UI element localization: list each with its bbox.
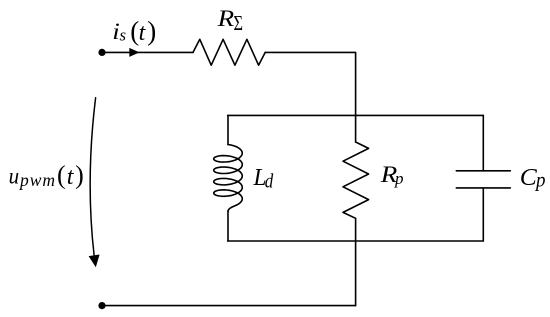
- wire bottom to left node: [102, 305, 356, 307]
- wire top-left to resistor: [102, 51, 193, 53]
- wire resistor to top-right corner: [265, 52, 355, 115]
- svg-text:): ): [75, 161, 84, 190]
- wire middle branch to bottom: [355, 241, 357, 306]
- wire right branch above capacitor: [482, 115, 484, 170]
- label L_d: [253, 165, 275, 192]
- wire top rail of parallel box: [228, 114, 484, 116]
- label i_s(t): [112, 16, 156, 46]
- label u_pwm(t): [9, 161, 84, 191]
- svg-text:Σ: Σ: [234, 11, 244, 35]
- voltage arrow u_pwm head: [89, 255, 100, 268]
- resistor R_Sigma: [193, 39, 265, 65]
- wire right branch below capacitor: [482, 188, 484, 241]
- svg-text:p: p: [394, 169, 404, 188]
- capacitor C_p bottom plate: [456, 187, 510, 189]
- voltage arrow u_pwm curve: [90, 98, 95, 256]
- current arrow i_s: [129, 48, 139, 57]
- svg-text:): ): [147, 16, 156, 46]
- svg-text:t: t: [67, 164, 75, 190]
- svg-text:u: u: [9, 164, 20, 189]
- capacitor C_p top plate: [456, 170, 510, 172]
- svg-text:pwm: pwm: [18, 170, 56, 190]
- resistor R_p: [343, 142, 369, 218]
- wire left branch above inductor: [227, 115, 229, 144]
- label R_Sigma: [216, 6, 243, 35]
- wire middle branch above R_p: [355, 115, 357, 142]
- wire left branch below inductor: [227, 211, 229, 241]
- node bottom-left terminal: [98, 302, 105, 309]
- wire middle branch below R_p: [355, 218, 357, 241]
- svg-text:p: p: [534, 169, 545, 191]
- svg-text:(: (: [57, 161, 66, 190]
- svg-text:s: s: [120, 26, 127, 45]
- svg-text:R: R: [216, 6, 234, 31]
- inductor L_d coil: [214, 145, 243, 206]
- wire bottom rail of parallel box: [228, 240, 484, 242]
- label R_p: [380, 162, 404, 188]
- node top-left terminal: [98, 49, 105, 56]
- svg-text:t: t: [139, 20, 147, 46]
- svg-text:d: d: [265, 170, 274, 192]
- label C_p: [520, 165, 546, 192]
